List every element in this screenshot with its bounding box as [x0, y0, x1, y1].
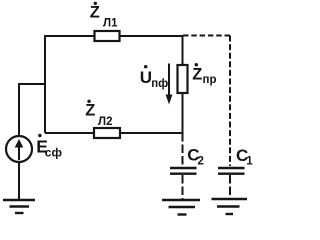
source E (circle with up arrow) [6, 136, 32, 162]
wire: right vertical dash-dot branch down to C1 [229, 36, 231, 167]
wire: branch from left vertical to source E [19, 84, 45, 136]
arrow U_pf (voltage arrow pointing down) [166, 64, 173, 105]
label Z_L1 [90, 2, 118, 30]
svg-text:1: 1 [246, 155, 253, 167]
label Z_L2 [85, 100, 112, 128]
wire: Z_L2 row right segment to junction node [120, 132, 183, 134]
label C2 [187, 145, 204, 167]
impedance Z_L2 (box in middle wire) [94, 128, 120, 138]
ground (under C2) [162, 200, 200, 215]
ground (under C1) [212, 199, 248, 214]
wire: Z_pr bottom down to node at Z_L2 row [182, 94, 184, 133]
impedance Z_L1 (box in top wire) [95, 31, 120, 41]
wire: top wire from Z_L1 to junction node [120, 35, 183, 37]
label U_pf [140, 65, 168, 90]
wire: dashed C2 bottom plate to ground [182, 175, 184, 199]
svg-text:Z: Z [90, 3, 100, 21]
label E_sf [36, 134, 62, 160]
impedance Z_pr (vertical box) [178, 65, 188, 93]
svg-text:Л1: Л1 [103, 18, 118, 30]
svg-text:сф: сф [45, 146, 63, 160]
svg-text:Z: Z [192, 65, 202, 83]
svg-text:пф: пф [151, 78, 168, 90]
wire: junction down to Z_pr top [182, 36, 184, 65]
wire: left branch (top-left corner, left vertical down to Z_L2 row) [45, 36, 94, 133]
label C1 [236, 146, 253, 167]
capacitor C1 [218, 168, 245, 174]
svg-text:Z: Z [85, 101, 95, 119]
capacitor C2 [170, 168, 197, 174]
wire: Z_L2 row left segment [45, 132, 94, 134]
svg-text:пр: пр [203, 74, 217, 86]
label Z_pr [192, 63, 216, 86]
ground (under source E) [3, 200, 35, 213]
wire: dashed node down to C2 top plate [182, 133, 184, 167]
wire: source E bottom to ground [18, 162, 20, 199]
svg-text:2: 2 [198, 155, 204, 167]
wire: dashed top-right segment to C1 branch [183, 35, 230, 37]
svg-text:Л2: Л2 [98, 116, 112, 128]
wire: dashed C1 bottom plate to ground [229, 175, 231, 198]
